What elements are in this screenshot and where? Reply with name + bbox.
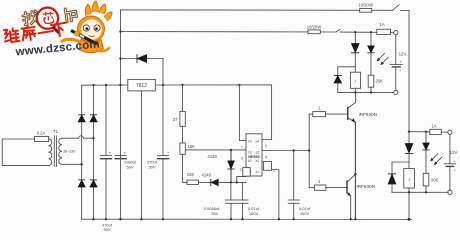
svg-text:20K: 20K [431,177,439,182]
transformer T1 primary [49,139,52,165]
svg-text:+: + [399,69,402,73]
wire 555 gnd pin [272,170,279,220]
svg-text:7812: 7812 [136,83,147,89]
wire relay2 to ground [408,192,410,219]
wire bottom ground rail [82,218,412,220]
svg-text:IRF630N: IRF630N [359,112,377,117]
mascot [62,1,112,53]
node LED2 tee [425,131,427,133]
svg-text:6: 6 [241,156,243,160]
node C3 bottom on ground rail [162,218,164,220]
switch S2 rail2 [336,29,340,32]
node C2 bottom on ground rail [119,218,121,220]
resistor R9 20K [423,173,438,192]
node main column fuse tee [408,130,410,132]
svg-text:3: 3 [265,144,267,148]
wire left vertical from top rails [120,10,122,219]
wire top rail [121,9,393,11]
battery BT1 12V top [390,35,406,91]
wire relay bottom to terminal [338,91,394,93]
switch S1 top rail [392,5,399,11]
svg-text:100V: 100V [300,211,310,216]
svg-text:1: 1 [318,179,321,184]
fuse F3 1A [430,124,442,135]
svg-text:2: 2 [240,167,242,171]
left arm swoosh [62,39,80,42]
diode D9 relay K2 flyback [388,162,396,192]
svg-text:b2: b2 [248,159,252,163]
diode D6 relay K1 series [352,32,360,66]
svg-text:5: 5 [265,156,267,160]
svg-text:+: + [167,150,170,155]
svg-text:0.2A: 0.2A [37,131,46,136]
pen handle [71,31,97,45]
capacitor C4 0.0068uf 50V [204,182,237,220]
wire fuse branch bottom [409,131,430,133]
wire 220uf column (with bypass leg) [162,85,164,156]
resistor R7 Q2 base 1 [314,179,326,191]
node C1 bottom on ground rail [105,218,107,220]
resistor R6 Q1 base 1 [313,105,326,116]
node diode tee [230,149,232,151]
diode D8 relay K2 series [405,132,413,162]
svg-text:4148: 4148 [202,173,212,178]
wire 555 vcc right leg [262,85,272,140]
logo brand 维 [3,28,19,43]
diode D2 [90,115,97,122]
diode D3 [78,180,85,187]
wire Q2 emitter down [350,196,352,219]
IC U1 NE555 [240,134,275,176]
wire Q1 collector up [354,92,356,102]
wire relay2 pair top [392,161,409,163]
pin pad lower-left [243,168,250,177]
capacitor C1 470uf 50V [101,85,113,232]
diode D7 relay K1 flyback [334,67,341,93]
diode D1 [78,115,85,122]
svg-text:50V: 50V [126,165,133,170]
capacitor C5 0.01uf 100V [237,182,260,220]
wire pin2 stub [237,177,246,183]
wire base drive vertical [308,114,310,188]
wire 7812 ground pin [141,91,143,219]
node C1 top on +V rail [105,84,107,86]
node U1 Vcc on +V rail [238,84,240,86]
svg-text:12V: 12V [450,150,458,155]
wire rail2 right of switch [340,31,376,33]
logo char 找 [22,11,38,25]
wire +V rail y85 [82,84,128,86]
wire AC input loop [2,139,48,165]
node bridge right on ground rail [92,218,94,220]
wire Q1 emitter down to Q2 collector and ground [354,122,356,219]
body [79,39,104,53]
svg-text:+: + [109,150,112,155]
svg-text:J: J [354,78,356,83]
node bridge right on +V rail [92,84,94,86]
svg-text:+: + [454,159,457,163]
terminal + top battery positive [394,31,398,35]
logo brand 下 [51,23,67,37]
regulator 7812 [128,79,156,91]
svg-text:1A: 1A [431,124,436,129]
wire secondary top tap [62,136,94,138]
resistor R5 10/20W rail2 [307,24,321,33]
resistor R1 27 [173,85,185,143]
node secondary top [92,137,94,139]
LED LED1 [368,32,374,75]
svg-text:50V: 50V [148,165,155,170]
capacitor C3 220uf 50V [147,150,170,169]
foot curl [97,48,109,51]
pin pad lower-right [263,162,271,171]
diode D4 [90,180,97,187]
svg-text:a1: a1 [256,170,260,174]
svg-text:12V: 12V [399,51,407,56]
LED1 arrows [377,54,389,66]
wire diode to 555 pin2 [218,181,246,183]
svg-text:1: 1 [318,105,321,110]
wire secondary bottom tap [62,163,82,165]
relay K1 coil J [350,67,360,93]
node pin3 cap tee [293,149,295,151]
transistor Q2 IRF630N [347,174,375,196]
diode D10 4148 [202,173,219,186]
resistor R2 10K [180,143,195,182]
svg-text:50V: 50V [211,211,218,216]
fuse F1 0.2A [35,131,49,142]
resistor R3 15K [187,172,199,185]
wire Q1 base branch [309,113,313,115]
resistor R4 10/20W top rail [358,3,374,13]
resistor R8 25K [368,75,383,92]
wire fuse to terminal [391,32,394,34]
wire rail2 [121,31,337,33]
node rail2 left corner [119,30,121,32]
fuse F2 1A [377,22,391,34]
svg-text:a2: a2 [256,159,260,163]
node vertical diode bottom [230,181,232,183]
wire bypass diode branch [121,58,137,60]
transistor Q1 IRF630N [348,103,377,123]
capacitor C2 1080uf 50V [115,150,137,169]
svg-text:25K: 25K [376,79,384,84]
svg-text:IRF630N: IRF630N [357,184,375,189]
svg-text:+: + [453,168,456,172]
transformer core [53,136,55,167]
relay K2 coil J [404,162,415,192]
terminal - bottom battery negative [448,190,452,194]
svg-text:10K: 10K [188,144,196,149]
transformer T1 secondary [59,138,62,164]
battery BT2 12V bottom [444,134,457,190]
capacitor C6 0.01uf 100V [288,151,311,221]
svg-text:27: 27 [173,117,178,122]
diode D5 7812 bypass [137,55,147,63]
svg-text:50V: 50V [103,227,110,232]
svg-text:1A: 1A [379,22,384,27]
svg-text:+: + [399,60,402,64]
svg-text:7: 7 [241,145,243,149]
wire relay2 bottom [392,191,448,193]
svg-text:4148: 4148 [208,154,218,159]
logo magnifier circle [37,8,58,29]
LED LED2 [423,132,429,174]
svg-text:15K: 15K [187,172,195,177]
watermark logo dzsc [3,1,112,59]
node C3 top on +V rail [162,84,164,86]
wire right rail vertical [408,10,410,131]
node rail2 relay tee [354,31,356,33]
wire 15K to diode [198,181,210,183]
node bypass left [119,57,121,59]
svg-text:100V: 100V [249,211,259,216]
logo char 片 [65,8,77,22]
eyes [83,25,89,31]
svg-text:+: + [124,150,127,155]
svg-text:10/20W: 10/20W [307,24,321,29]
head [78,16,105,42]
terminal - top battery negative [394,90,398,94]
wire bridge column left [81,85,83,219]
LED2 arrows [430,154,442,166]
node 7812 gnd on ground rail [140,218,142,220]
svg-text:J: J [408,177,410,182]
wire top rail right of switch [401,9,410,11]
terminal + bottom battery positive [448,130,452,134]
logo brand 一 [38,31,52,33]
svg-text:38~33V: 38~33V [63,150,76,154]
node input column on +V rail [119,84,121,86]
svg-text:10/20W: 10/20W [358,3,374,8]
wire 1080uf column gap [120,85,122,156]
svg-text:b4: b4 [248,140,252,144]
wire Q2 base branch [309,187,314,189]
wire 555 vcc left leg [239,85,246,141]
node rail2 LED tee [370,31,372,33]
svg-text:NE555: NE555 [248,155,259,159]
logo char 芯 [43,12,54,24]
diode D11 4148 [208,150,235,183]
svg-text:www.dzsc.com: www.dzsc.com [14,38,100,58]
crown spikes [85,1,112,21]
logo magnifier handle [52,26,60,34]
wire relay pair top [338,66,356,68]
svg-text:T1: T1 [53,129,59,134]
logo brand 库 [21,25,36,41]
wire bridge column right [93,85,95,219]
svg-text:a4: a4 [256,140,260,144]
node secondary bottom [81,163,83,165]
wire 555 pin3 out [262,150,309,152]
wire 10K to pin7 [185,149,246,151]
node R1 top on +V rail [181,84,183,86]
